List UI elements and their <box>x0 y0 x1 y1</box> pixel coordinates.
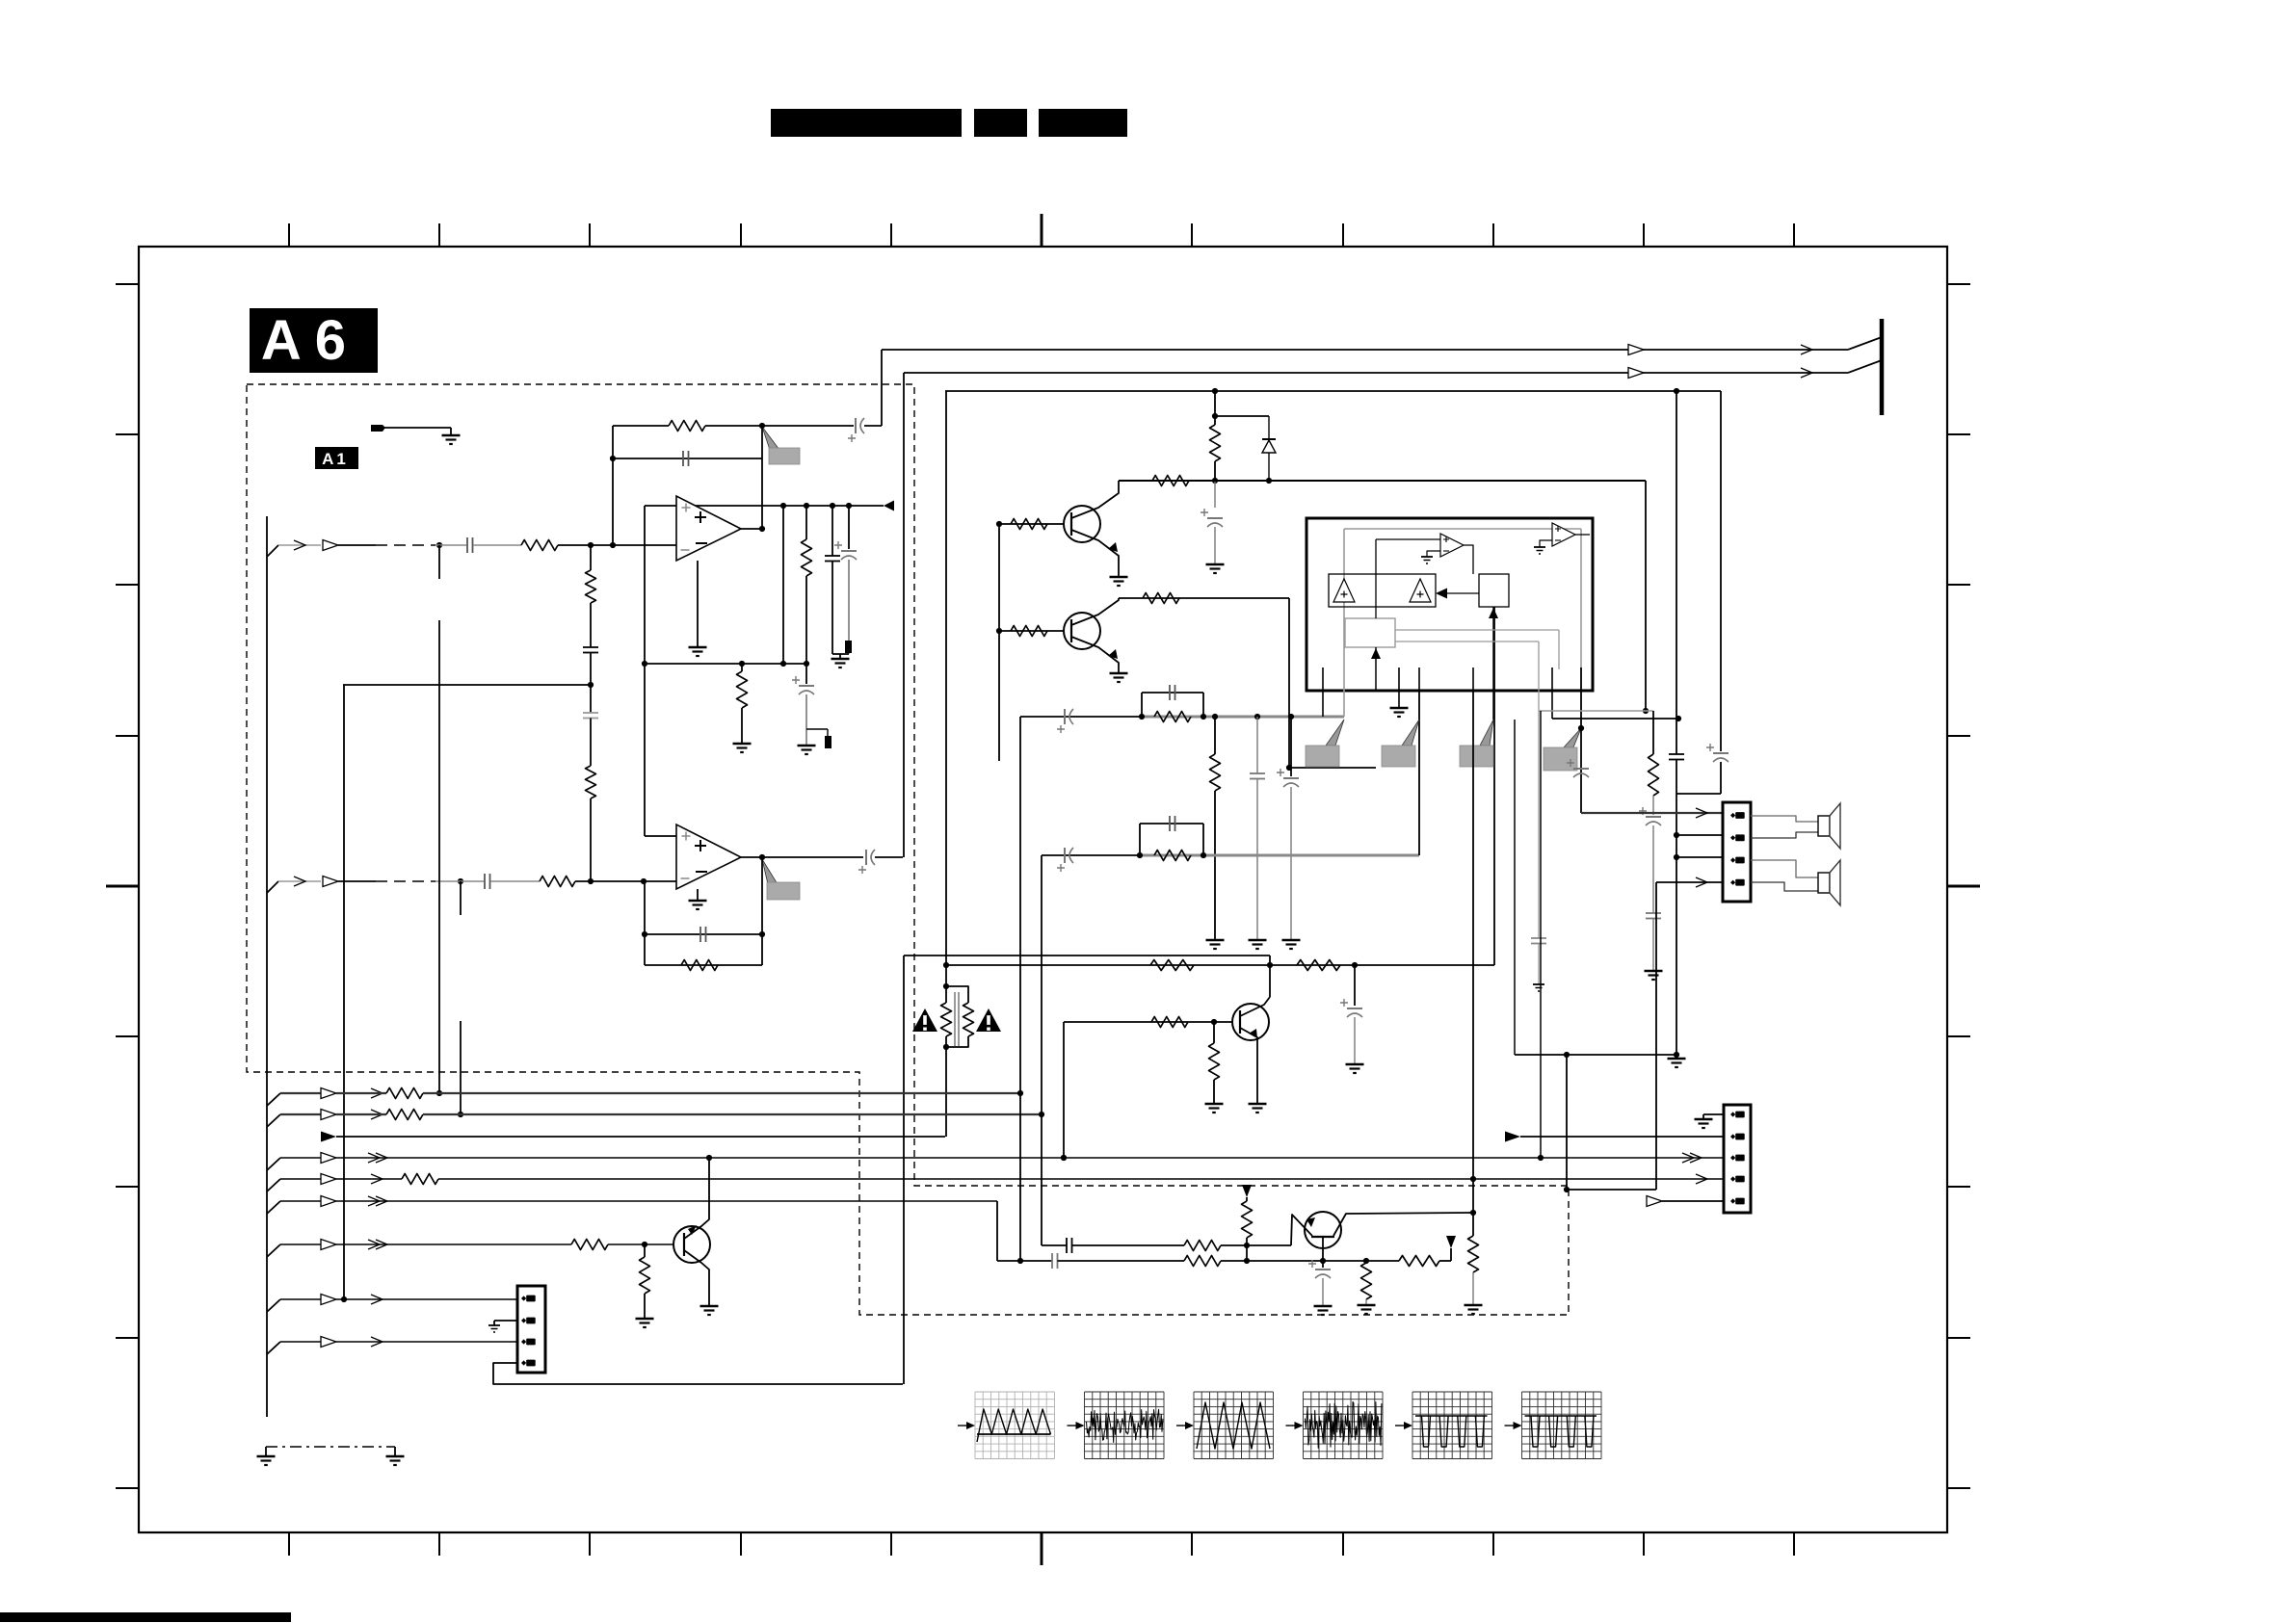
vertical x1428 inner <box>1375 539 1377 618</box>
polar capacitor C16 <box>1064 848 1066 863</box>
ground <box>1206 563 1225 566</box>
wire <box>1652 919 1654 972</box>
Q1 base bar <box>1070 512 1072 536</box>
rail y689 <box>645 663 806 665</box>
feedback rail op1 <box>613 425 669 427</box>
wire <box>1246 1238 1248 1245</box>
wire <box>590 653 592 714</box>
IC grey out 1 <box>1395 629 1559 631</box>
wire <box>644 1244 646 1257</box>
IC pin <box>1322 668 1324 717</box>
node <box>1674 388 1679 394</box>
vertical x357 <box>343 685 345 1299</box>
wire <box>1322 1261 1324 1268</box>
plus labels U1 <box>682 504 691 512</box>
J2 pin 5 <box>1730 1198 1735 1203</box>
jog wire <box>1214 391 1216 416</box>
U3a -input stub <box>1427 551 1440 557</box>
capacitor C24 plates <box>1066 1238 1068 1253</box>
wire y1293 lead <box>1042 1244 1067 1246</box>
wire dashed <box>376 544 435 546</box>
node <box>1244 1258 1250 1264</box>
transformer T1 secondary <box>963 1003 974 1036</box>
Q2 base bar <box>1070 619 1072 642</box>
wire <box>590 798 592 881</box>
ground <box>1282 939 1301 942</box>
scope arrow 1 <box>958 1425 971 1427</box>
node <box>1244 1243 1250 1248</box>
U3a +input <box>1376 538 1440 540</box>
speaker wire 2 <box>1751 832 1818 838</box>
wire <box>1246 1197 1248 1201</box>
feedback left leg <box>644 881 646 965</box>
polar capacitor C20 <box>1646 816 1661 818</box>
rail y888 corner <box>1042 854 1142 856</box>
J1 pin 4 <box>1730 880 1735 885</box>
ground <box>1249 1103 1267 1106</box>
IC pin x1572 <box>1514 720 1516 1055</box>
wire y1309 lead <box>997 1260 1052 1262</box>
node <box>1139 714 1145 720</box>
wire <box>435 880 484 882</box>
resistor R2b <box>586 766 596 798</box>
speaker wire 1 <box>1751 816 1818 822</box>
ground <box>1668 1058 1686 1060</box>
IC op-amp U3a <box>1440 534 1464 557</box>
title bar 3 <box>1039 109 1127 137</box>
test flag TP4 <box>1402 720 1419 746</box>
wire <box>1214 791 1216 940</box>
title bar 1 <box>771 109 962 137</box>
node <box>642 661 647 667</box>
wire <box>805 664 807 684</box>
scope arrow 6 <box>1505 1425 1518 1427</box>
node <box>1320 1258 1326 1264</box>
resistor R16 <box>1150 960 1194 971</box>
connector J3 <box>517 1286 545 1373</box>
J1 pin 1 <box>1730 813 1735 818</box>
wire <box>1058 1260 1185 1262</box>
node <box>1039 1112 1044 1117</box>
polar capacitor C12 <box>1064 709 1066 724</box>
node <box>780 661 786 667</box>
wire to J1 pin2 <box>1676 834 1724 836</box>
vertical x1740 <box>1676 391 1677 754</box>
rail y744 left <box>1020 716 1142 718</box>
IC wire <box>1447 592 1479 594</box>
IC pin x1641 <box>1580 668 1582 813</box>
test flag TP6 <box>1564 728 1581 747</box>
top rail 2 <box>904 372 1848 374</box>
resistor R8 <box>1210 425 1221 461</box>
wire <box>848 560 850 654</box>
Q5 base bar <box>1311 1236 1334 1238</box>
scope arrow 4 <box>1286 1425 1300 1427</box>
connector J1 <box>1723 802 1751 902</box>
resistor R9 <box>1152 476 1189 486</box>
vertical x478 <box>460 881 462 915</box>
base link vertical <box>998 524 1000 761</box>
wire <box>1676 760 1677 795</box>
wire <box>1214 481 1216 508</box>
wire <box>450 428 452 435</box>
node <box>1564 1187 1570 1192</box>
speaker wire 4 <box>1751 882 1818 891</box>
speaker LS1 <box>1818 816 1830 836</box>
node <box>1676 716 1681 721</box>
Q4 base wire <box>1064 1021 1232 1023</box>
Q2 base wire <box>999 630 1064 632</box>
ground <box>386 1455 405 1458</box>
rail up to IC <box>1418 691 1420 855</box>
drawing border frame <box>139 247 1947 1532</box>
title bar 2 <box>974 109 1027 137</box>
bus wire B <box>267 1114 280 1127</box>
wire <box>805 694 807 746</box>
wire <box>1354 965 1356 1006</box>
node <box>1201 714 1206 720</box>
resistor R11 <box>1011 626 1047 637</box>
IC inner grey top <box>1344 528 1581 530</box>
node <box>588 682 594 688</box>
wire <box>1213 1022 1215 1043</box>
Q2 emitter <box>1071 637 1119 673</box>
diag <box>1848 360 1882 373</box>
ground small <box>488 1324 500 1326</box>
wire <box>1676 794 1677 1055</box>
resistor R26 <box>1468 1236 1479 1272</box>
arrow <box>294 540 305 550</box>
IC up arrow line <box>1492 607 1494 720</box>
transistor Q4 <box>1232 1004 1269 1040</box>
polar capacitor C5 <box>799 685 814 687</box>
vertical wire x613 <box>590 545 592 570</box>
input lead-in diagonal ch2 <box>267 881 278 893</box>
off-page arrow <box>884 501 894 511</box>
Q4 base bar <box>1239 1010 1241 1034</box>
wire to J1 pin3 <box>1676 856 1724 858</box>
IC pin <box>1551 668 1553 719</box>
vertical x982 upper <box>945 391 947 1003</box>
grey link <box>1539 710 1653 712</box>
border tick marks top and bottom <box>288 223 290 247</box>
op-amp output wire <box>741 856 762 858</box>
node <box>759 931 765 937</box>
node <box>1470 1176 1476 1182</box>
link x1294 <box>1246 1245 1248 1261</box>
wire <box>1072 1244 1185 1246</box>
ground stem <box>839 654 841 659</box>
node <box>1578 725 1584 731</box>
Q4 collector <box>1240 997 1270 1016</box>
wire <box>1652 796 1654 815</box>
cap join bar <box>832 653 849 655</box>
connector J2 <box>1724 1105 1751 1213</box>
scope grid 4 <box>1303 1392 1305 1459</box>
wire <box>762 856 863 858</box>
node <box>458 878 463 884</box>
transistor Q1 <box>1064 506 1100 542</box>
vertical x1719 <box>1655 882 1657 1190</box>
J2 pin1 ground <box>1703 1113 1724 1115</box>
wire <box>1214 717 1216 754</box>
module label A1 <box>315 447 358 469</box>
node <box>1267 962 1273 968</box>
diode D1 <box>1268 416 1270 438</box>
rail y1002 <box>946 964 1494 966</box>
U3b output <box>1575 534 1590 536</box>
wire <box>473 544 521 546</box>
wire <box>1290 717 1292 776</box>
bus wire A <box>267 1093 280 1106</box>
node <box>943 1044 949 1050</box>
link rail y711 <box>343 684 591 686</box>
resistor R19 <box>1209 1043 1220 1080</box>
dashed outline of module A1 area <box>247 384 1569 1315</box>
wire corner right <box>1645 481 1647 711</box>
wire <box>1652 825 1654 913</box>
bus wire F <box>267 1201 280 1214</box>
ground <box>257 1455 276 1458</box>
vertical x1338 <box>1288 598 1290 768</box>
test flag TP2 <box>762 859 778 884</box>
transistor Q2 <box>1064 613 1100 649</box>
wire <box>435 544 466 546</box>
J3 pin2 ground wire <box>494 1320 517 1322</box>
bus wire C <box>336 1136 945 1138</box>
arrow <box>294 877 305 886</box>
Q1 collector <box>1071 481 1119 518</box>
node <box>1212 413 1218 419</box>
wire <box>338 544 376 546</box>
test flag TP1 <box>762 427 779 450</box>
polar capacitor C23 <box>1713 752 1729 754</box>
node <box>1288 714 1294 720</box>
open arrow <box>1628 345 1644 355</box>
warning triangle <box>912 1008 937 1032</box>
vertical x1626 <box>1566 1055 1568 1190</box>
resistor R15 <box>1154 851 1191 861</box>
vertical x982 lower <box>945 1036 947 1137</box>
node <box>1201 852 1206 858</box>
minus labels U1 <box>696 542 707 544</box>
wire <box>1221 1260 1399 1262</box>
plus labels U2 <box>682 832 691 841</box>
vertical x277 <box>266 516 268 1417</box>
ground <box>1465 1304 1483 1307</box>
ground <box>1390 707 1409 710</box>
ground <box>700 1305 719 1308</box>
ground small <box>1533 983 1544 985</box>
ground <box>636 1318 654 1321</box>
speaker wire 3 <box>1751 860 1818 877</box>
minus labels U2 <box>696 871 707 873</box>
ground <box>1249 939 1267 942</box>
Q5 base stem <box>1322 1237 1324 1261</box>
wire <box>705 425 854 427</box>
rail y888 grey <box>1142 854 1419 857</box>
capacitor C4 plates <box>682 451 684 466</box>
scope grid 3 <box>1193 1392 1195 1459</box>
node <box>641 878 647 884</box>
bus wire C start arrow <box>321 1132 336 1142</box>
scope arrow 5 <box>1395 1425 1409 1427</box>
IC up arrowhead <box>1489 608 1498 618</box>
wire <box>278 544 321 546</box>
polar capacitor C19 <box>1573 768 1589 770</box>
polar capacitor C9 <box>865 850 867 865</box>
cap loop stub <box>1141 693 1143 717</box>
node <box>610 456 616 461</box>
polar capacitor C15 <box>1283 777 1299 779</box>
Q1 emitter <box>1071 530 1119 577</box>
resistor R23 <box>1184 1256 1221 1267</box>
polar capacitor C18 <box>1347 1008 1362 1009</box>
transistor Q5 <box>1305 1212 1341 1248</box>
Q2 collector <box>1071 598 1119 625</box>
test plug stub <box>371 425 385 432</box>
node <box>846 503 852 509</box>
IC inner grey right <box>1580 529 1582 669</box>
scope grid 5 <box>1412 1392 1413 1459</box>
capacitor C8 plates <box>484 874 486 889</box>
waveform 3 triangle <box>1197 1402 1270 1449</box>
scope grid 1 <box>974 1392 976 1459</box>
node <box>996 521 1002 527</box>
wire y992 <box>904 955 1270 956</box>
bus wire H <box>267 1299 280 1312</box>
arrow <box>1696 877 1707 887</box>
wire <box>1354 1017 1356 1064</box>
J2 pin2 wire <box>1520 1136 1724 1138</box>
feedback res rail <box>645 964 762 966</box>
node <box>759 526 765 532</box>
Q1 base wire <box>999 523 1064 525</box>
node <box>996 628 1002 634</box>
node <box>458 1112 463 1117</box>
node <box>1212 478 1218 484</box>
wire <box>1215 415 1269 417</box>
ground stem U1 <box>697 561 699 647</box>
resistor R13 <box>1154 712 1191 722</box>
capacitor C22 plates <box>1669 753 1684 755</box>
Q3 emitter <box>684 1158 709 1239</box>
wire <box>1365 1299 1367 1305</box>
ground <box>1695 1118 1713 1121</box>
capacitor C6 plates <box>825 555 840 557</box>
node <box>610 542 616 548</box>
diag <box>1848 337 1882 350</box>
polar capacitor C26 <box>1315 1269 1331 1270</box>
IC inner grey left <box>1343 529 1345 717</box>
arrow <box>1801 345 1812 354</box>
ground <box>1314 1305 1333 1308</box>
node <box>1674 1052 1679 1058</box>
node <box>1470 1210 1476 1216</box>
wire <box>875 856 903 858</box>
vertical x1529 <box>1472 691 1474 1236</box>
wire y746 <box>1552 718 1678 720</box>
Q5 emitter <box>1291 1215 1312 1245</box>
node <box>943 983 949 989</box>
waveform 4 noise <box>1306 1401 1382 1448</box>
capacitor C2 plates <box>583 646 598 648</box>
wire <box>741 708 743 744</box>
svg-text:A6: A6 <box>261 309 359 372</box>
supply rail y525 <box>645 505 884 507</box>
capacitor C10 plates <box>699 927 701 942</box>
wire <box>1256 779 1258 941</box>
U3b -input stub <box>1540 540 1552 547</box>
node <box>341 1296 347 1302</box>
wire y1235 <box>1567 1189 1656 1191</box>
resistor R22 <box>1184 1241 1221 1251</box>
node <box>1017 1258 1023 1264</box>
svg-text:A1: A1 <box>322 450 349 468</box>
IC tri amp 2 <box>1410 579 1431 602</box>
waveform 1 triangle <box>977 1409 1051 1442</box>
node <box>1674 832 1679 838</box>
node <box>642 931 647 937</box>
node <box>1061 1155 1067 1161</box>
footer bar <box>0 1612 291 1622</box>
node <box>780 503 786 509</box>
resistor R2 <box>586 570 596 603</box>
IC grey box <box>1345 618 1395 647</box>
node <box>759 423 765 429</box>
capacitor C21 plates <box>1646 912 1661 914</box>
node <box>759 854 765 860</box>
node <box>588 542 594 548</box>
capacitor C14 plates <box>1250 772 1265 774</box>
scope arrow 2 <box>1068 1425 1081 1427</box>
wire dashed <box>376 880 435 882</box>
down arrow marker <box>1446 1236 1456 1248</box>
transistor Q3 <box>673 1226 710 1263</box>
T1 secondary loop <box>946 986 968 1003</box>
J3 pin 4 <box>521 1360 526 1365</box>
feedback vertical U2 <box>761 857 763 965</box>
wire <box>1221 1244 1291 1246</box>
IC op-amp U3b <box>1552 523 1575 546</box>
riser to IC pin <box>1493 607 1495 965</box>
Q5 emitter arrow <box>1306 1217 1315 1227</box>
node <box>1061 1155 1067 1161</box>
resistor R7 <box>681 960 718 971</box>
resistor R21 <box>640 1257 650 1294</box>
resistor R14 <box>1210 754 1221 791</box>
J2 pin5 wire <box>1662 1200 1724 1202</box>
resistor R17 <box>1297 960 1340 971</box>
grey wire <box>1538 944 1540 985</box>
ground <box>831 658 850 661</box>
decoupling x813 <box>782 506 784 664</box>
node <box>642 1242 647 1247</box>
ground <box>689 900 707 903</box>
node <box>943 962 949 968</box>
ground rail y1095 <box>1515 1054 1676 1056</box>
IC up arrowhead 2 <box>1371 648 1381 659</box>
IC square box <box>1479 574 1509 607</box>
decoupling x837 upper <box>805 506 807 539</box>
vertical x1599 <box>1540 711 1542 1158</box>
Q3 collector <box>684 1250 709 1306</box>
resistor R5 <box>737 671 748 708</box>
border tick marks left and right <box>116 283 139 285</box>
waveform 6 pulses <box>1525 1415 1597 1417</box>
ground <box>1346 1063 1364 1066</box>
polar capacitor C11 <box>1207 517 1223 519</box>
